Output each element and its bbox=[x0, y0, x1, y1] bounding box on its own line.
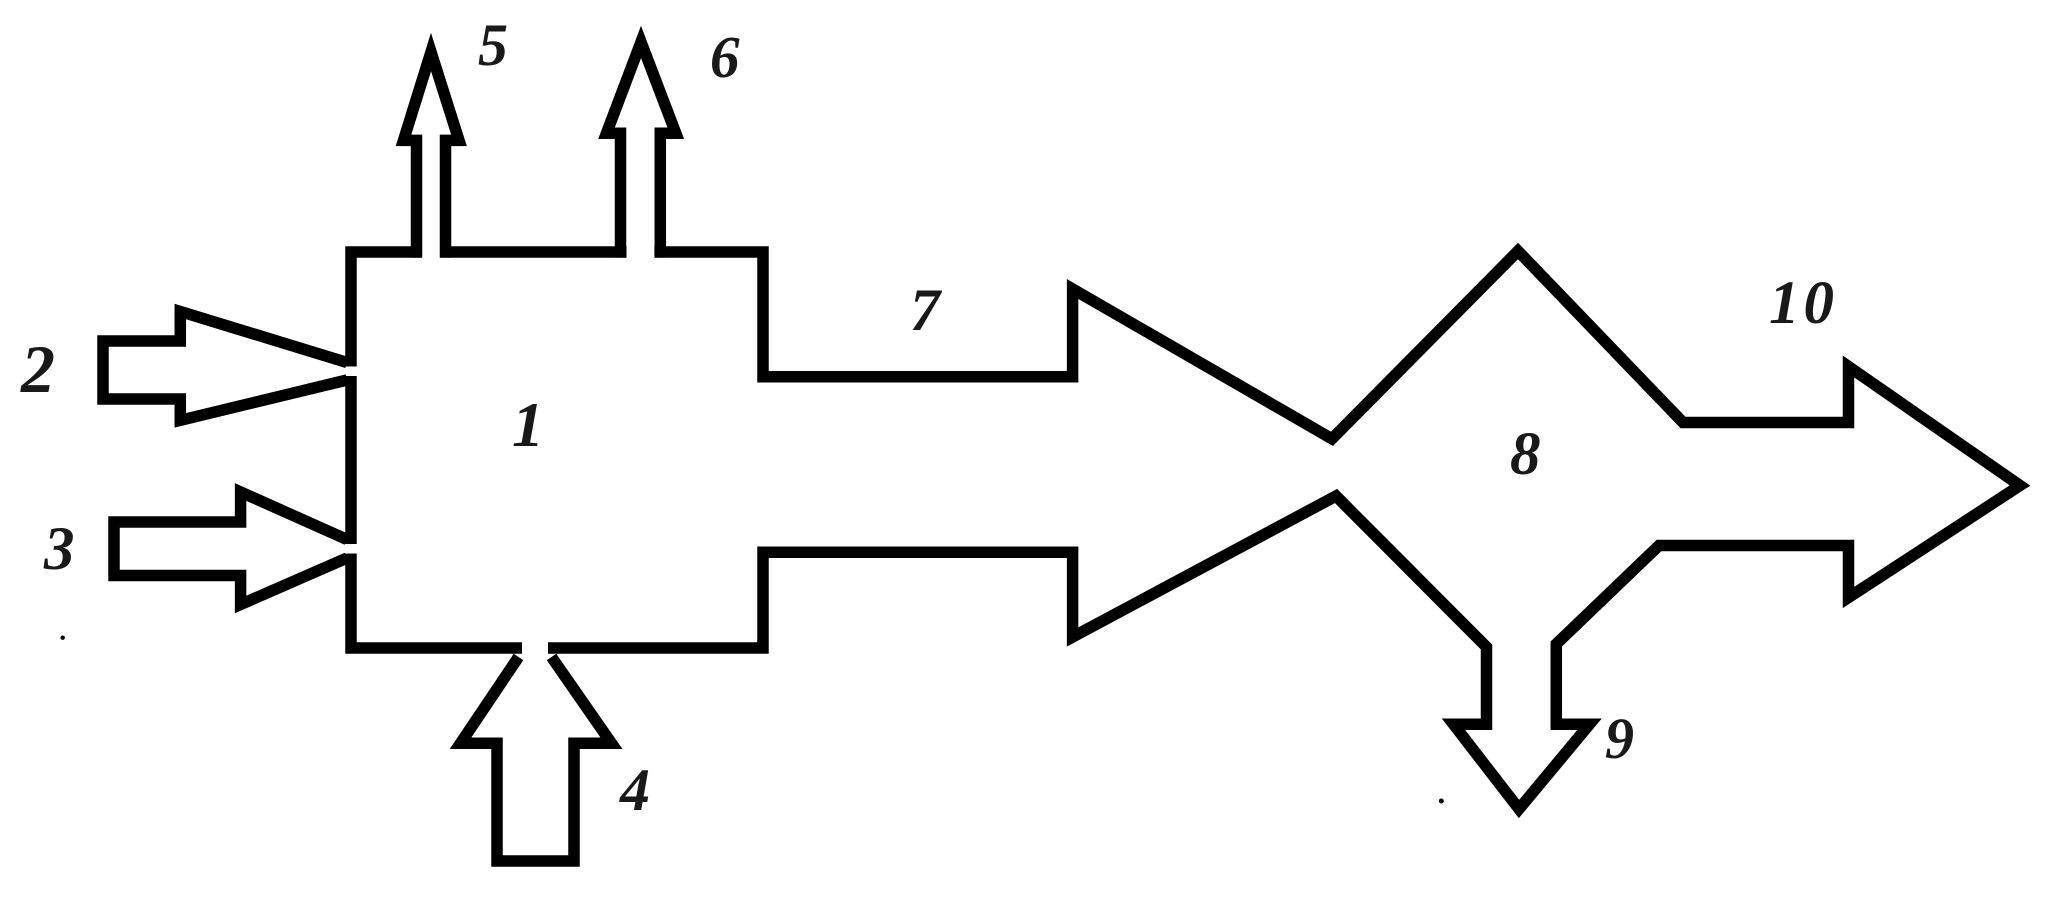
arrow 4 bbox=[461, 657, 612, 861]
svg-text:1: 1 bbox=[512, 389, 544, 460]
box 1 top-left wall and top edge segment bbox=[351, 252, 422, 367]
svg-text:4: 4 bbox=[619, 757, 650, 823]
svg-text:2: 2 bbox=[20, 331, 55, 407]
arrow 3 bbox=[114, 492, 347, 605]
arrow 6 bbox=[607, 42, 676, 258]
stray dot left bbox=[61, 636, 65, 640]
box 1 top edge middle segment bbox=[440, 246, 627, 258]
svg-text:6: 6 bbox=[710, 24, 740, 90]
svg-text:5: 5 bbox=[478, 12, 508, 78]
main flow outline: box right side, channel, flare 7, waist, diamond 8, arrow 10, arrow 9 bbox=[548, 251, 2020, 809]
svg-text:8: 8 bbox=[1510, 421, 1541, 488]
stray dot right bbox=[1439, 799, 1444, 804]
svg-text:10: 10 bbox=[1769, 270, 1838, 337]
box 1 bottom edge left segment and lower-left wall bbox=[351, 554, 522, 649]
arrow 5 bbox=[404, 52, 460, 258]
svg-text:7: 7 bbox=[910, 277, 942, 343]
svg-text:9: 9 bbox=[1605, 706, 1634, 771]
arrow 2 bbox=[103, 312, 347, 421]
box 1 left wall middle segment bbox=[345, 376, 357, 544]
svg-text:3: 3 bbox=[43, 516, 75, 583]
